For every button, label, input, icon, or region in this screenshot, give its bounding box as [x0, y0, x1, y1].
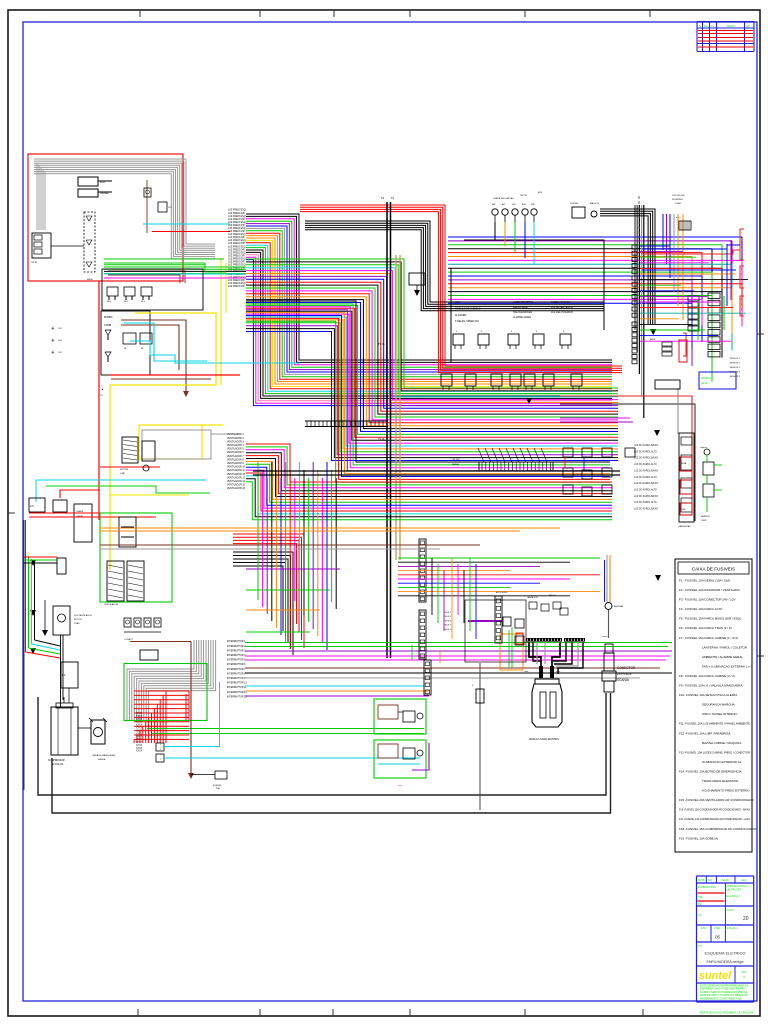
svg-text:CAIXA DE MANGUEIRA: CAIXA DE MANGUEIRA	[92, 754, 115, 757]
svg-text:VENTILADOR 6: VENTILADOR 6	[227, 451, 244, 454]
svg-text:XXXX: XXXX	[136, 733, 143, 735]
svg-text:FOLHA 1: FOLHA 1	[727, 926, 738, 930]
svg-text:ALARME GERAL: ALARME GERAL	[513, 316, 532, 319]
svg-text:TS: TS	[391, 197, 394, 200]
svg-text:RELE 5: RELE 5	[444, 629, 452, 631]
svg-text:MOTOR: MOTOR	[74, 619, 82, 621]
svg-text:F2 - FUSIVEL 10A RADIADOR / VE: F2 - FUSIVEL 10A RADIADOR / VENTILADO	[679, 588, 740, 592]
svg-text:12 POLOS: 12 POLOS	[52, 764, 64, 766]
svg-text:TS DL: TS DL	[378, 343, 385, 346]
svg-text:XXXX: XXXX	[136, 739, 143, 741]
svg-text:SENSOR: SENSOR	[701, 516, 710, 518]
svg-text:XXXX: XXXX	[136, 748, 143, 750]
svg-text:SENSOR 2: SENSOR 2	[729, 363, 740, 365]
svg-text:CEB: CEB	[681, 509, 686, 511]
svg-text:VENTILADOR 3: VENTILADOR 3	[227, 440, 244, 443]
svg-text:LUZ FREIO DIR: LUZ FREIO DIR	[228, 231, 245, 233]
svg-text:INTERRUPTOR 10: INTERRUPTOR 10	[227, 683, 247, 685]
svg-text:visto: visto	[741, 878, 747, 882]
svg-text:INTERRUPTOR 4: INTERRUPTOR 4	[227, 655, 246, 657]
svg-text:INTERRUPTOR 9: INTERRUPTOR 9	[227, 678, 246, 680]
svg-text:LUZ FREIO ESQ: LUZ FREIO ESQ	[228, 210, 246, 212]
svg-text:✳: ✳	[51, 326, 55, 331]
svg-text:F6 - FUSIVEL 10A FAROL TRAS (3: F6 - FUSIVEL 10A FAROL TRAS (3 / 5)	[679, 626, 732, 630]
svg-text:INTERRUPTOR 2: INTERRUPTOR 2	[227, 646, 246, 648]
svg-text:RELE 3: RELE 3	[444, 620, 452, 622]
svg-text:XXXX: XXXX	[136, 745, 143, 747]
svg-text:20: 20	[743, 916, 749, 922]
svg-text:MODULO: MODULO	[701, 378, 711, 380]
svg-text:DESC: DESC	[727, 24, 735, 28]
svg-text:FL: FL	[711, 24, 715, 28]
svg-text:UNID: UNID	[714, 926, 720, 930]
svg-text:LUZ DO FAROL BAIXO: LUZ DO FAROL BAIXO	[634, 508, 658, 511]
svg-text:CH: CH	[30, 505, 34, 508]
svg-text:ESQUEMA ELETRICO: ESQUEMA ELETRICO	[705, 951, 746, 956]
svg-text:F5 - FUSIVEL 15A FAROL BAIXO (: F5 - FUSIVEL 15A FAROL BAIXO (DIR / ESQ)	[679, 617, 741, 621]
svg-text:ACIONAMENTO FREIO EXTERNO: ACIONAMENTO FREIO EXTERNO	[702, 789, 750, 793]
svg-text:XXXX: XXXX	[136, 722, 143, 724]
svg-text:LUZ DO FAROL BAIXO: LUZ DO FAROL BAIXO	[634, 469, 658, 472]
svg-text:LUZ DE LED: LUZ DE LED	[672, 195, 685, 197]
svg-text:INTERRUPTOR 11: INTERRUPTOR 11	[227, 687, 247, 689]
svg-text:VENTILADOR 13: VENTILADOR 13	[227, 476, 246, 479]
svg-text:LAMPA NOS: LAMPA NOS	[527, 596, 539, 599]
svg-text:CN 24P: CN 24P	[452, 459, 460, 461]
svg-text:SCANIA: SCANIA	[617, 678, 630, 682]
svg-text:✳: ✳	[51, 338, 55, 343]
svg-text:LUZ FREIO DIR: LUZ FREIO DIR	[228, 280, 245, 282]
svg-text:LIGHT: LIGHT	[675, 203, 682, 205]
svg-text:saida: saida	[524, 671, 528, 673]
svg-text:LUZ DO FAROL BAIXO: LUZ DO FAROL BAIXO	[634, 495, 658, 498]
svg-text:CAIXA DE FUSIVEIS: CAIXA DE FUSIVEIS	[692, 567, 735, 572]
svg-text:LUZ FREIO DIR: LUZ FREIO DIR	[228, 237, 245, 239]
svg-text:TKP BF: TKP BF	[520, 195, 528, 197]
svg-text:LIB PROJET: LIB PROJET	[726, 888, 741, 892]
svg-text:XXXX: XXXX	[136, 751, 143, 753]
svg-text:TS: TS	[381, 197, 384, 200]
svg-text:VENTILADOR 12: VENTILADOR 12	[227, 473, 246, 476]
svg-text:VENTILADOR 15: VENTILADOR 15	[227, 484, 246, 487]
svg-text:NO: NO	[708, 878, 712, 882]
svg-text:RESERVADOS CONFORME A LEI: RESERVADOS CONFORME A LEI	[700, 996, 742, 1000]
svg-text:BOMBA: BOMBA	[104, 316, 113, 319]
svg-text:LUZ FREIO ESQ: LUZ FREIO ESQ	[228, 283, 246, 285]
svg-text:INTERRUPTOR 12: INTERRUPTOR 12	[227, 692, 247, 694]
svg-text:BATE: BATE	[650, 338, 656, 341]
svg-text:TRAVA FREIO ELEVATOR: TRAVA FREIO ELEVATOR	[702, 779, 739, 783]
svg-text:SENSOR 3: SENSOR 3	[729, 367, 740, 369]
svg-text:F1 - FUSIVEL 10A GERAL (10A /: F1 - FUSIVEL 10A GERAL (10A / 15A)	[679, 579, 730, 583]
svg-text:INTERRUPTOR 8: INTERRUPTOR 8	[227, 673, 246, 675]
svg-text:VENTILADOR 11: VENTILADOR 11	[227, 469, 245, 472]
svg-text:LUZ FREIO DIR: LUZ FREIO DIR	[228, 286, 245, 288]
svg-text:LUZ DO FAROL BAIXO: LUZ DO FAROL BAIXO	[634, 457, 658, 460]
svg-text:T-RELES, SPEED KM: T-RELES, SPEED KM	[455, 320, 479, 323]
svg-text:LUZ FREIO DIR: LUZ FREIO DIR	[228, 262, 245, 264]
svg-text:INTERRUPTOR 7: INTERRUPTOR 7	[227, 669, 246, 671]
svg-text:LUZES APAGADA: LUZES APAGADA	[551, 301, 571, 304]
svg-text:LUZ DO FAROL ALTO: LUZ DO FAROL ALTO	[634, 476, 657, 479]
svg-text:24 PINOS: 24 PINOS	[617, 672, 631, 676]
svg-text:LUZ FREIO DIR: LUZ FREIO DIR	[228, 219, 245, 221]
svg-text:APROVACAO DA: APROVACAO DA	[726, 884, 747, 888]
svg-text:FLASHER: FLASHER	[455, 314, 466, 317]
svg-text:INTERRUPTOR 13: INTERRUPTOR 13	[227, 696, 247, 698]
svg-text:DATA: DATA	[698, 878, 705, 882]
svg-text:LUZ FREIO DIR: LUZ FREIO DIR	[228, 213, 245, 215]
svg-text:XXXX: XXXX	[136, 742, 143, 744]
svg-text:VENTILADOR 7: VENTILADOR 7	[227, 455, 244, 458]
svg-text:AP: AP	[746, 24, 750, 28]
svg-text:DA: DA	[704, 24, 708, 28]
svg-text:F15 -FUSIVEL 20A VENTILADOR AR: F15 -FUSIVEL 20A VENTILADOR AR CONDICION…	[679, 798, 754, 802]
svg-text:LUZ FREIO DIR: LUZ FREIO DIR	[228, 249, 245, 251]
svg-text:▲: ▲	[101, 387, 104, 391]
svg-text:F17 -FUSIVEL 15A CONDENSADOR A: F17 -FUSIVEL 15A CONDENSADOR AR CONDICIO…	[679, 817, 750, 821]
svg-text:VENTILADOR 9: VENTILADOR 9	[227, 462, 244, 465]
svg-text:F10- FUSIVEL 10A SETAS/ PISCA: F10- FUSIVEL 10A SETAS/ PISCA ALERTA	[679, 693, 737, 697]
svg-text:LUZ DO FAROL ALTO: LUZ DO FAROL ALTO	[634, 450, 657, 453]
svg-text:CAIXA EVAP: CAIXA EVAP	[678, 525, 691, 528]
svg-text:XXXX: XXXX	[136, 728, 143, 730]
svg-text:XXXX: XXXX	[136, 736, 143, 738]
svg-text:LUZ FREIO ESQ: LUZ FREIO ESQ	[228, 265, 246, 267]
svg-text:TS DL: TS DL	[378, 438, 385, 441]
svg-text:FAR + ILUMINACAO EXTERNA 1 e 7: FAR + ILUMINACAO EXTERNA 1 e 7	[702, 664, 753, 668]
svg-text:RS: RS	[62, 674, 66, 677]
svg-text:BUZINA CABINE / MAQUINA: BUZINA CABINE / MAQUINA	[702, 741, 741, 745]
svg-text:VENTILADOR 14: VENTILADOR 14	[227, 480, 246, 483]
svg-text:F4 - FUSIVEL 10A FAROL ALTO: F4 - FUSIVEL 10A FAROL ALTO	[679, 607, 723, 611]
svg-text:MEDIA SINAL: MEDIA SINAL	[513, 306, 529, 309]
svg-text:COTA: COTA	[726, 908, 733, 912]
svg-text:APOS BLIND: APOS BLIND	[496, 591, 508, 594]
svg-text:No FL: No FL	[722, 878, 730, 882]
svg-text:INTERRUPTOR 6: INTERRUPTOR 6	[227, 664, 246, 666]
svg-text:XXXX: XXXX	[136, 725, 143, 727]
svg-text:EMPILHADEIRA ee/rfgw: EMPILHADEIRA ee/rfgw	[706, 960, 744, 964]
svg-text:LIMP: LIMP	[120, 473, 126, 475]
svg-text:DAGUA: DAGUA	[98, 758, 106, 761]
svg-text:saida: saida	[556, 671, 560, 673]
svg-text:VENTILADOR 4: VENTILADOR 4	[227, 444, 244, 447]
svg-text:INTERRUPTOR 5: INTERRUPTOR 5	[227, 660, 246, 662]
svg-text:XXXX: XXXX	[136, 730, 143, 732]
svg-text:F9 - FUSIVEL 15A ( A ) VALVULA: F9 - FUSIVEL 15A ( A ) VALVULA MANGUEIRA	[679, 684, 742, 688]
svg-text:CONECTOR: CONECTOR	[617, 666, 636, 670]
svg-text:LUZ VENTILADOR: LUZ VENTILADOR	[74, 614, 92, 617]
svg-text:conect: conect	[602, 635, 608, 638]
svg-text:LUZ FREIO ESQ: LUZ FREIO ESQ	[228, 228, 246, 230]
svg-text:MAG 12V: MAG 12V	[590, 202, 600, 205]
svg-text:LUZ DO FAROL BAIXO: LUZ DO FAROL BAIXO	[634, 482, 658, 485]
svg-text:PL: PL	[698, 902, 702, 906]
svg-text:PRL: PRL	[698, 895, 704, 899]
svg-text:ACE: ACE	[538, 191, 543, 194]
svg-text:SENSOR 4: SENSOR 4	[729, 372, 740, 374]
svg-text:LUZ DO FAROL ALTO: LUZ DO FAROL ALTO	[634, 463, 657, 466]
svg-text:ANTENA: ANTENA	[614, 605, 623, 608]
svg-text:VENTILADOR 16: VENTILADOR 16	[227, 487, 246, 490]
svg-text:GIRO / PAINEL INTERNO: GIRO / PAINEL INTERNO	[702, 712, 738, 716]
svg-text:✳: ✳	[51, 350, 55, 355]
svg-text:COMPRESSOR: COMPRESSOR	[48, 760, 65, 762]
svg-text:LUZ FREIO DIR: LUZ FREIO DIR	[228, 243, 245, 245]
svg-text:COMB: COMB	[104, 324, 112, 327]
svg-text:LUZES DE SETAS: LUZES DE SETAS	[513, 301, 533, 304]
svg-text:F14 -FUSIVEL 10A BOTAO DE EMER: F14 -FUSIVEL 10A BOTAO DE EMERGENCIA	[679, 770, 742, 774]
svg-text:XXXX: XXXX	[136, 713, 143, 715]
svg-text:HALOGENIODES: HALOGENIODES	[513, 311, 533, 314]
svg-text:ESC: ESC	[701, 926, 706, 930]
svg-text:30A: 30A	[216, 787, 220, 790]
svg-text:MODULO DE INJECAO: MODULO DE INJECAO	[455, 307, 481, 310]
svg-text:12V: 12V	[168, 207, 172, 209]
svg-text:LUZ DEL INTERIOR: LUZ DEL INTERIOR	[551, 311, 573, 314]
svg-text:regensr: regensr	[700, 446, 707, 449]
svg-text:LUZ FREIO DIR: LUZ FREIO DIR	[228, 255, 245, 257]
svg-text:BIP OU: BIP OU	[549, 595, 556, 597]
svg-text:CHAVE DE IGNICAO: CHAVE DE IGNICAO	[493, 197, 514, 200]
svg-text:VENTILADOR 5: VENTILADOR 5	[227, 448, 244, 451]
svg-text:TRAS: TRAS	[74, 622, 80, 625]
svg-text:F13 -FUSIVEL 10A LUZES CABINE,: F13 -FUSIVEL 10A LUZES CABINE, FREIO / C…	[679, 750, 751, 754]
svg-text:ELABOR PROJ: ELABOR PROJ	[698, 885, 717, 889]
svg-text:RELE 2: RELE 2	[444, 616, 452, 618]
svg-text:PAINEL: PAINEL	[452, 463, 460, 466]
svg-text:RELE: RELE	[87, 279, 93, 281]
svg-text:VENTILADOR 10: VENTILADOR 10	[227, 466, 246, 469]
svg-text:VENTILADOR 8: VENTILADOR 8	[227, 458, 244, 461]
svg-text:ELETRICA: ELETRICA	[726, 894, 739, 898]
svg-text:LUZ FREIO ESQ: LUZ FREIO ESQ	[228, 246, 246, 248]
svg-text:F7 - FUSIVEL 15A FAROL CABINE: F7 - FUSIVEL 15A FAROL CABINE (1 / 3/ 6)	[679, 636, 738, 640]
svg-text:TEMP: TEMP	[701, 520, 707, 522]
svg-text:LUZ FREIO ESQ: LUZ FREIO ESQ	[228, 216, 246, 218]
svg-text:LUZ DO FAROL ALTO: LUZ DO FAROL ALTO	[634, 488, 657, 491]
svg-text:FIG: FIG	[742, 970, 747, 974]
svg-text:LUZ FREIO DIR: LUZ FREIO DIR	[228, 225, 245, 227]
svg-text:FUSIVEL: FUSIVEL	[213, 785, 223, 787]
svg-text:BOIA: BOIA	[681, 462, 687, 465]
svg-text:CN B1: CN B1	[31, 262, 38, 264]
svg-text:ILUMINACAO EXTERIOR 1a: ILUMINACAO EXTERIOR 1a	[702, 760, 741, 764]
svg-text:F8 - FUSIVEL 10A FAROL CABINE: F8 - FUSIVEL 10A FAROL CABINE (2 / 4)	[679, 674, 735, 678]
svg-text:SEGURANCA MARCHA: SEGURANCA MARCHA	[702, 703, 735, 707]
svg-text:LANTERNA / FAROL / COLETOR: LANTERNA / FAROL / COLETOR	[702, 645, 748, 649]
svg-text:INTERRUPTOR 3: INTERRUPTOR 3	[227, 650, 246, 652]
svg-text:N: N	[699, 24, 701, 28]
svg-text:RELE 4: RELE 4	[444, 625, 452, 627]
svg-text:suntel: suntel	[699, 970, 732, 982]
svg-text:LUZ FREIO ESQ: LUZ FREIO ESQ	[228, 222, 246, 224]
svg-text:TIT: TIT	[698, 944, 702, 948]
svg-text:LUZ FREIO ESQ: LUZ FREIO ESQ	[228, 252, 246, 254]
svg-text:CONECT: CONECT	[124, 639, 134, 641]
svg-text:F18 -FUSIVEL 15A COMPRESSOR AR: F18 -FUSIVEL 15A COMPRESSOR AR CONDICION…	[679, 827, 757, 831]
svg-text:RELE 1: RELE 1	[444, 612, 452, 614]
svg-text:LUZ FREIO ESQ: LUZ FREIO ESQ	[228, 234, 246, 236]
svg-text:F12 -FUSIVEL 10A LIMP. PARABRI: F12 -FUSIVEL 10A LIMP. PARABRISA	[679, 731, 730, 735]
svg-text:SENSOR 5: SENSOR 5	[729, 376, 740, 378]
svg-text:F11 -FUSIVEL 10A LUZ AMBIENTE: F11 -FUSIVEL 10A LUZ AMBIENTE / PAINEL A…	[679, 722, 750, 726]
svg-text:VENTILADOR: VENTILADOR	[104, 603, 118, 606]
svg-text:XXXX: XXXX	[136, 716, 143, 718]
svg-text:LUZ DO FAROL ALTO: LUZ DO FAROL ALTO	[634, 501, 657, 504]
svg-text:F16 -FUSIVEL 15A CONDENSADOR A: F16 -FUSIVEL 15A CONDENSADOR AR CONDICIO…	[679, 808, 750, 812]
svg-text:F3 - FUSIVEL 10A CONECTOR 24V: F3 - FUSIVEL 10A CONECTOR 24V / 12V	[679, 598, 736, 602]
svg-text:VENTILADOR 2: VENTILADOR 2	[227, 437, 244, 440]
svg-text:painel r: painel r	[701, 382, 709, 385]
svg-text:WORKING: WORKING	[672, 199, 683, 201]
svg-text:SENSOR 1: SENSOR 1	[729, 358, 740, 360]
svg-text:LUZ FREIO ESQ: LUZ FREIO ESQ	[228, 240, 246, 242]
svg-text:FUSIVEL: FUSIVEL	[570, 203, 580, 205]
svg-text:LA: LA	[698, 913, 701, 917]
svg-text:AMBIENTE / ALARME GERAL: AMBIENTE / ALARME GERAL	[702, 655, 743, 659]
svg-text:MODULO SAIDA DIANTEIS: MODULO SAIDA DIANTEIS	[529, 738, 559, 741]
svg-text:ABS: ABS	[455, 301, 460, 304]
svg-text:05: 05	[715, 935, 721, 940]
svg-text:LUZ DO FAROL BAIXO: LUZ DO FAROL BAIXO	[634, 444, 658, 447]
svg-text:LUZ FREIO ESQ: LUZ FREIO ESQ	[228, 259, 246, 261]
svg-text:MOTOR: MOTOR	[120, 469, 129, 471]
svg-text:F19 -FUSIVEL 10A SOBE( A): F19 -FUSIVEL 10A SOBE( A)	[679, 836, 718, 840]
svg-text:REPRODUCAO PROIBIDA LEI 9610/9: REPRODUCAO PROIBIDA LEI 9610/98	[700, 1011, 754, 1015]
svg-text:INTERRUPTOR 1: INTERRUPTOR 1	[227, 641, 246, 643]
svg-text:LUZ ADVERTENCIA: LUZ ADVERTENCIA	[551, 306, 573, 309]
